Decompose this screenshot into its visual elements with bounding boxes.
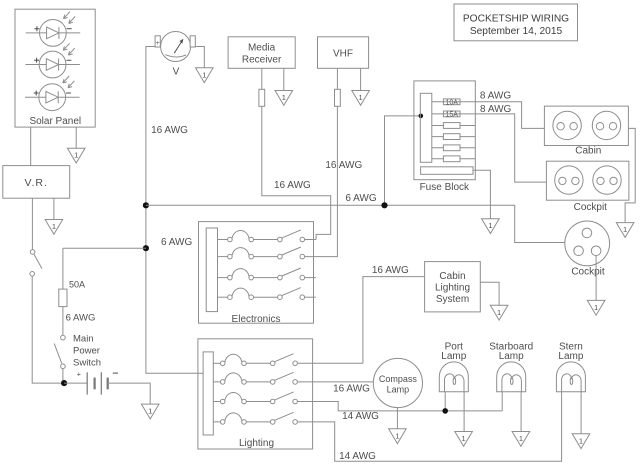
wire electronics circuit 4 output [305, 296, 316, 298]
port lamp [439, 362, 468, 392]
fuse 50A [59, 289, 67, 307]
ground (outlets) [616, 223, 634, 238]
svg-text:1: 1 [488, 221, 492, 230]
cabin outlets box [544, 106, 628, 156]
fuse (media receiver) [259, 89, 265, 106]
svg-text:Lighting: Lighting [239, 438, 274, 449]
stern lamp [556, 362, 585, 392]
svg-text:6 AWG: 6 AWG [66, 312, 96, 323]
svg-text:Compass: Compass [379, 374, 418, 384]
wire media receiver to ground [283, 68, 285, 90]
svg-text:1: 1 [497, 308, 501, 317]
voltage regulator V.R. [3, 166, 70, 199]
wire VHF to ground [360, 68, 362, 90]
svg-text:10A: 10A [445, 99, 458, 106]
junction (fuse block tap) [381, 202, 387, 208]
svg-text:Receiver: Receiver [242, 55, 282, 66]
ground (media receiver) [275, 91, 293, 106]
wire V.R. to switch [31, 198, 33, 249]
duplex outlet (cockpit 2) [593, 166, 621, 194]
junction (battery positive) [61, 380, 67, 386]
svg-text:Power: Power [73, 346, 100, 357]
wire fuse block negative bus to ground [473, 170, 490, 218]
wire solar panel to V.R. [30, 127, 32, 166]
junction (6 AWG tap) [143, 202, 149, 208]
duplex outlet (cabin 1) [553, 111, 581, 139]
wire fuse 6 [432, 158, 476, 160]
cabin lighting system [425, 262, 481, 312]
compass lamp [373, 358, 422, 407]
wire electronics circuit 1 output [305, 239, 316, 241]
svg-text:16 AWG: 16 AWG [333, 384, 370, 395]
svg-text:1: 1 [52, 222, 56, 231]
breaker/switch circuit (electronics 2) [218, 247, 305, 259]
wire outlets negative to ground [625, 128, 635, 222]
svg-text:Main: Main [73, 334, 94, 345]
junction (fuse block bus) [419, 114, 424, 119]
breaker/switch circuit (electronics 3) [218, 268, 305, 280]
svg-text:16 AWG: 16 AWG [151, 125, 188, 136]
wire 6 AWG main feed to cockpit light [146, 205, 565, 242]
wire fuse 1 [432, 101, 476, 103]
ground (stern lamp) [572, 434, 590, 449]
wire cabin lighting system to ground [480, 282, 499, 305]
starboard lamp [497, 362, 526, 392]
svg-text:Cabin: Cabin [575, 145, 601, 156]
svg-text:1: 1 [202, 70, 206, 79]
svg-text:1: 1 [395, 431, 399, 440]
svg-text:+: + [156, 40, 160, 47]
wire compass lamp to ground [396, 408, 398, 429]
switch (solar charge disconnect) [30, 250, 42, 277]
wire VHF to fuse [336, 68, 338, 89]
wire cockpit light to ground [595, 256, 597, 301]
ground (cabin lighting system) [490, 305, 508, 320]
breaker/switch circuit (lighting 3) [213, 392, 297, 404]
wire 8 AWG to cockpit outlets [475, 114, 546, 182]
svg-text:50A: 50A [69, 279, 85, 289]
wire 50A branch [63, 248, 146, 289]
wire 8 AWG to cabin outlets [475, 102, 544, 129]
wire 16 AWG lighting to cabin lighting system [363, 277, 425, 364]
junction (50A branch tap) [143, 245, 149, 251]
main power switch [54, 334, 101, 369]
svg-text:Lamp: Lamp [558, 351, 583, 362]
svg-text:Lamp: Lamp [499, 351, 524, 362]
duplex outlet (cabin 2) [592, 111, 620, 139]
svg-text:6 AWG: 6 AWG [161, 237, 193, 248]
wire 16 AWG lighting to compass lamp [297, 381, 373, 383]
wire fuse 2 [432, 113, 476, 115]
wire lighting circuit 1 output [297, 362, 363, 364]
title block [454, 4, 578, 41]
fuse 3 [443, 123, 460, 129]
svg-text:Lamp: Lamp [441, 351, 466, 362]
wire fuse 3 [432, 125, 476, 127]
svg-text:16 AWG: 16 AWG [274, 180, 311, 191]
svg-text:Lamp: Lamp [387, 385, 410, 395]
wire port lamp feed [444, 392, 446, 411]
junction (port lamp tap) [442, 408, 448, 414]
svg-text:1: 1 [579, 436, 583, 445]
wire main power switch to battery [62, 369, 64, 384]
ground (port lamp) [455, 432, 473, 447]
ground (V.R.) [45, 220, 63, 235]
ground (solar panel) [67, 148, 85, 163]
wire switch to battery junction [32, 276, 61, 383]
svg-text:Cockpit: Cockpit [574, 202, 608, 213]
electronics panel [199, 222, 314, 325]
breaker/switch circuit (electronics 1) [218, 230, 305, 242]
svg-text:16 AWG: 16 AWG [325, 160, 362, 171]
svg-text:1: 1 [282, 93, 286, 102]
ground (voltmeter) [196, 68, 214, 83]
breaker/switch circuit (lighting 1) [213, 354, 297, 366]
ground (cockpit light) [587, 300, 605, 315]
svg-text:Lighting: Lighting [435, 283, 470, 294]
svg-text:POCKETSHIP WIRING: POCKETSHIP WIRING [463, 14, 569, 25]
svg-text:1: 1 [148, 407, 152, 416]
fuse 6 [443, 156, 460, 162]
solar cell 2 [25, 43, 80, 78]
fuse block [414, 81, 475, 193]
svg-text:1: 1 [623, 225, 627, 234]
wire electronics circuit 3 output [305, 277, 316, 279]
svg-text:+: + [77, 370, 81, 379]
ground (fuse block) [482, 219, 500, 234]
battery [64, 370, 118, 395]
wire fuse 5 [432, 147, 476, 149]
breaker/switch circuit (electronics 4) [218, 288, 305, 300]
wire fuse to main power switch [62, 307, 64, 336]
svg-text:V.R.: V.R. [24, 177, 47, 189]
svg-text:Switch: Switch [73, 358, 101, 369]
cockpit light fixture [565, 221, 610, 278]
wire media receiver to fuse [261, 68, 263, 89]
breaker/switch circuit (lighting 4) [213, 412, 297, 424]
svg-text:Media: Media [248, 43, 276, 54]
solar panel [15, 9, 95, 127]
svg-text:1: 1 [359, 93, 363, 102]
duplex outlet (cockpit 1) [555, 166, 583, 194]
svg-text:1: 1 [594, 303, 598, 312]
wire port lamp to ground [463, 392, 465, 432]
svg-text:V: V [173, 67, 180, 78]
wire voltmeter to ground [195, 47, 204, 68]
wire V.R. to ground [53, 198, 55, 219]
svg-text:VHF: VHF [333, 49, 353, 60]
svg-text:14 AWG: 14 AWG [342, 411, 379, 422]
svg-text:Electronics: Electronics [232, 314, 281, 325]
wire stern lamp to ground [580, 392, 582, 434]
wire fuse 4 [432, 136, 476, 138]
fuse 15A [443, 111, 460, 117]
svg-text:Cabin: Cabin [439, 271, 465, 282]
wire 6 AWG branch to fuse block [385, 116, 421, 205]
ground (VHF) [352, 91, 370, 106]
svg-text:1: 1 [519, 434, 523, 443]
cockpit outlets box [546, 161, 629, 213]
wire 14 AWG to stern lamp [297, 392, 561, 462]
svg-text:16 AWG: 16 AWG [372, 265, 409, 276]
wire 16 AWG media receiver to electronics [262, 106, 331, 239]
svg-text:15A: 15A [445, 112, 458, 119]
ground (battery) [141, 404, 159, 419]
wire starboard lamp feed [501, 392, 503, 411]
svg-text:Solar Panel: Solar Panel [29, 116, 81, 127]
svg-text:1: 1 [74, 151, 78, 160]
lighting panel [198, 339, 313, 449]
breaker/switch circuit (lighting 2) [213, 372, 297, 384]
svg-text:System: System [436, 294, 469, 305]
fuse 5 [443, 145, 460, 151]
wire voltmeter to lighting panel bus (16 AWG main) [146, 47, 203, 374]
wire 14 AWG to port/starboard lamps [297, 402, 502, 411]
media receiver [228, 37, 295, 69]
fuse 10A [443, 99, 460, 105]
wire battery negative to ground [108, 383, 151, 404]
svg-text:Fuse Block: Fuse Block [420, 182, 470, 193]
solar cell 1 [26, 12, 80, 47]
VHF radio [318, 37, 369, 69]
svg-text:6 AWG: 6 AWG [345, 193, 377, 204]
ground (starboard lamp) [512, 432, 530, 447]
wire starboard lamp to ground [520, 392, 522, 432]
ground (compass lamp) [389, 429, 407, 444]
svg-text:Cockpit: Cockpit [571, 267, 605, 278]
svg-text:8 AWG: 8 AWG [480, 90, 512, 101]
svg-text:September 14, 2015: September 14, 2015 [470, 26, 563, 37]
svg-text:14 AWG: 14 AWG [339, 451, 376, 462]
svg-text:1: 1 [462, 434, 466, 443]
solar cell 3 [25, 76, 80, 111]
fuse 4 [443, 134, 460, 140]
fuse (VHF) [335, 89, 341, 106]
wire 16 AWG VHF to electronics [305, 106, 338, 256]
voltmeter V [155, 32, 195, 78]
wire solar panel to ground [75, 127, 77, 148]
svg-text:8 AWG: 8 AWG [480, 104, 512, 115]
